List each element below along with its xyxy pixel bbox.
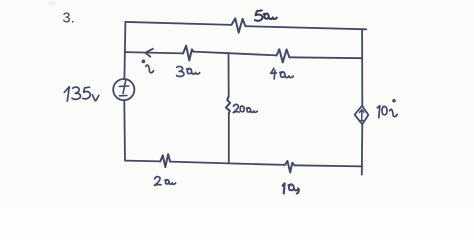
wire center vertical bottom segment (228, 114, 230, 164)
wire top right segment (245, 26, 366, 29)
wire left vertical bottom segment (123, 100, 126, 160)
label 4Ω (271, 68, 293, 79)
wire middle horizontal mid segment (193, 52, 276, 56)
label 1Ω (283, 183, 299, 193)
wire middle horizontal right segment (289, 56, 362, 59)
wire bottom mid segment (170, 162, 285, 165)
voltage source 135V (113, 79, 134, 100)
wire right vertical bottom segment (361, 124, 364, 174)
wire left vertical top segment (124, 22, 125, 79)
wire bottom right segment (295, 165, 363, 166)
current arrow i (145, 49, 152, 57)
resistor 20Ω (226, 96, 230, 113)
paper smudge (48, 1, 57, 5)
label i (142, 60, 153, 72)
wire right vertical top segment (361, 29, 363, 106)
resistor 4Ω (277, 49, 290, 62)
wire bottom left segment (125, 160, 160, 163)
label 2Ω (154, 177, 175, 186)
resistor 5Ω (232, 18, 246, 32)
wire center vertical top segment (228, 53, 230, 96)
resistor 2Ω (160, 154, 170, 167)
resistor 3Ω (183, 46, 193, 61)
svg-text:3.: 3. (63, 11, 75, 27)
label 20Ω (233, 104, 257, 112)
label 135v (64, 87, 99, 101)
wire top left segment (125, 22, 231, 25)
wire middle horizontal left segment (125, 52, 184, 53)
label 3Ω (177, 66, 200, 76)
dependent current source 10i (355, 106, 369, 125)
label 10i (377, 100, 397, 118)
label 5Ω (255, 10, 277, 20)
resistor 1Ω (285, 161, 295, 172)
